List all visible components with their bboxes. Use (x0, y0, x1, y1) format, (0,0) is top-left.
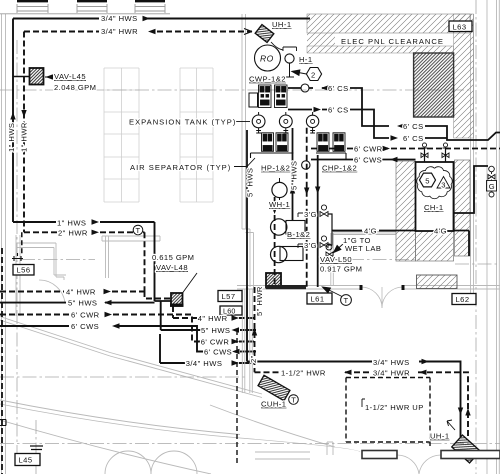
svg-text:5" HWS: 5" HWS (290, 161, 299, 190)
svg-text:0.615 GPM: 0.615 GPM (152, 253, 194, 262)
svg-text:L45: L45 (19, 456, 33, 465)
svg-text:6' CWR: 6' CWR (71, 311, 100, 320)
svg-text:B-1&2: B-1&2 (287, 230, 310, 239)
svg-text:6' CS: 6' CS (328, 84, 349, 93)
svg-text:L57: L57 (222, 292, 236, 301)
svg-text:L63: L63 (453, 23, 467, 32)
svg-text:CH-1: CH-1 (424, 203, 444, 212)
svg-text:ELEC PNL CLEARANCE: ELEC PNL CLEARANCE (341, 37, 444, 46)
svg-text:CHP-1&2: CHP-1&2 (322, 164, 357, 173)
svg-text:0.917 GPM: 0.917 GPM (320, 265, 362, 274)
svg-text:CUH-1: CUH-1 (261, 400, 286, 409)
svg-text:L61: L61 (311, 295, 325, 304)
svg-text:2" HWR: 2" HWR (58, 229, 88, 238)
svg-text:WET LAB: WET LAB (345, 244, 381, 253)
svg-text:3'G: 3'G (304, 241, 317, 250)
svg-text:3/4" HWR: 3/4" HWR (101, 27, 138, 36)
svg-text:1" HWS: 1" HWS (57, 219, 86, 228)
svg-text:H-1: H-1 (299, 55, 313, 64)
svg-text:4'G: 4'G (434, 227, 447, 236)
svg-text:EXPANSION TANK (TYP): EXPANSION TANK (TYP) (129, 118, 236, 127)
svg-text:4'G: 4'G (364, 227, 377, 236)
svg-text:2": 2" (249, 355, 258, 363)
svg-text:3/4" HWS: 3/4" HWS (373, 358, 410, 367)
svg-text:5" HWS: 5" HWS (201, 326, 230, 335)
svg-text:5" HWR: 5" HWR (255, 286, 264, 316)
svg-text:3/4" HWR: 3/4" HWR (373, 369, 410, 378)
svg-text:4" HWR: 4" HWR (66, 288, 96, 297)
svg-text:6' CWS: 6' CWS (204, 348, 232, 357)
svg-text:HP-1&2: HP-1&2 (261, 164, 290, 173)
svg-text:6' CS: 6' CS (403, 134, 424, 143)
svg-text:2.048 GPM: 2.048 GPM (54, 83, 96, 92)
svg-text:3'G: 3'G (304, 210, 317, 219)
svg-text:3: 3 (441, 181, 446, 190)
svg-text:T: T (136, 226, 141, 235)
svg-text:T: T (291, 396, 296, 405)
svg-text:6' CWS: 6' CWS (71, 322, 99, 331)
svg-text:VAV-L50: VAV-L50 (320, 255, 352, 264)
svg-text:1-1/2" HWR: 1-1/2" HWR (281, 369, 326, 378)
svg-text:6' CS: 6' CS (328, 106, 349, 115)
svg-text:5" HWS: 5" HWS (68, 299, 97, 308)
svg-text:L62: L62 (456, 295, 470, 304)
svg-text:AIR SEPARATOR (TYP): AIR SEPARATOR (TYP) (130, 163, 231, 172)
svg-text:1-1/2" HWR UP: 1-1/2" HWR UP (365, 403, 424, 412)
svg-text:5" HWS: 5" HWS (246, 168, 255, 197)
svg-text:6' CWR: 6' CWR (201, 338, 230, 347)
svg-text:RO: RO (260, 54, 274, 64)
svg-text:UH-1: UH-1 (272, 20, 292, 29)
svg-text:WH-1: WH-1 (269, 200, 290, 209)
svg-text:3/4" HWS: 3/4" HWS (186, 359, 223, 368)
svg-text:5: 5 (425, 177, 430, 186)
svg-text:1" HWR: 1" HWR (20, 122, 29, 152)
svg-text:L56: L56 (17, 266, 31, 275)
svg-text:VAV-L45: VAV-L45 (54, 72, 86, 81)
svg-text:CWP-1&2: CWP-1&2 (249, 75, 286, 84)
svg-text:4" HWR: 4" HWR (198, 314, 228, 323)
svg-text:VAV-L48: VAV-L48 (156, 263, 188, 272)
svg-text:6' CWR: 6' CWR (354, 145, 383, 154)
svg-text:6' CS: 6' CS (403, 122, 424, 131)
svg-text:2: 2 (311, 71, 316, 80)
svg-text:G: G (489, 182, 495, 191)
svg-text:3/4" HWS: 3/4" HWS (101, 14, 138, 23)
svg-text:1" HWS: 1" HWS (7, 123, 16, 152)
svg-text:6' CWS: 6' CWS (354, 156, 382, 165)
svg-text:UH-1: UH-1 (430, 432, 450, 441)
svg-text:T: T (344, 296, 349, 305)
